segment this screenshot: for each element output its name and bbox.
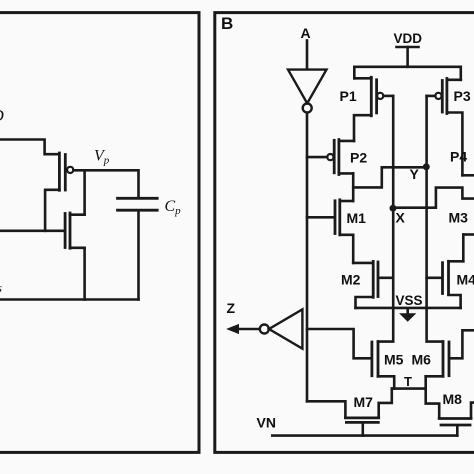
wire M7 source to T xyxy=(379,389,392,418)
transistor QP gate bubble xyxy=(67,167,73,173)
transistor M1 channel bar xyxy=(338,200,341,235)
wire Abar corner to M7 drain xyxy=(307,401,345,416)
wire Vdd feed to QP source xyxy=(0,140,58,155)
transistor M4 gate bar xyxy=(441,263,444,294)
transistor M7 gate bar xyxy=(346,421,378,424)
wire QN drain stub xyxy=(70,213,85,216)
svg-text:M8: M8 xyxy=(443,391,463,407)
wire P2 drain stub xyxy=(339,172,353,175)
inverter U1 bubble xyxy=(303,104,312,113)
transistor M5 channel bar xyxy=(377,342,380,377)
capacitor Cp bottom plate xyxy=(118,209,158,212)
svg-text:Y: Y xyxy=(410,166,420,182)
wire QN source stub xyxy=(70,247,85,250)
svg-text:P1: P1 xyxy=(340,88,357,104)
transistor M7 channel bar xyxy=(345,416,378,419)
wire QP drain down to gate line xyxy=(45,190,59,231)
svg-text:P2: P2 xyxy=(350,150,367,166)
panel A frame xyxy=(0,13,199,453)
inverter U2 bubble xyxy=(260,325,269,334)
transistor QP channel bar xyxy=(58,153,61,190)
wire VSS rail xyxy=(356,307,461,310)
wire P3 drain stub xyxy=(447,113,463,176)
transistor P1 gate bubble xyxy=(377,93,383,99)
wire QN source to bottom rail xyxy=(83,248,86,300)
wire M7 gate stem to VN rail xyxy=(361,424,364,436)
wire Abar to M5 gate xyxy=(307,329,371,358)
transistor QP gate bar xyxy=(64,155,67,191)
transistor M8 gate bar xyxy=(441,424,470,427)
wire drain line to Y riser xyxy=(353,167,382,187)
svg-text:VN: VN xyxy=(257,415,276,431)
wire M6 drain stub to VSS rail xyxy=(427,308,443,342)
transistor P2 channel bar xyxy=(337,140,340,175)
inverter U2 triangle xyxy=(269,309,302,348)
wire M5 source stub to T xyxy=(378,376,394,388)
svg-text:s: s xyxy=(0,280,2,295)
wire VDD underline xyxy=(397,46,419,49)
wire M4 gate to Y column xyxy=(427,276,442,279)
inverter U1 triangle xyxy=(288,70,327,104)
wire Vp drop to QN drain xyxy=(83,170,86,214)
wire P1 gate to X column xyxy=(384,95,394,98)
wire P2 source stub xyxy=(339,140,354,143)
svg-text:Vp: Vp xyxy=(94,148,110,167)
transistor P1 gate bar xyxy=(375,80,378,113)
node X junction dot xyxy=(390,205,397,212)
capacitor Cp top plate xyxy=(118,197,158,200)
svg-text:X: X xyxy=(396,210,406,226)
wire VN rail xyxy=(272,434,457,437)
wire input A xyxy=(306,41,309,70)
wire M1 drain stub xyxy=(340,200,353,203)
wire VDD top rail xyxy=(354,67,461,80)
wire P1 source stub xyxy=(354,77,371,80)
transistor QN gate bar xyxy=(64,214,67,248)
transistor P3 gate bar xyxy=(441,81,444,113)
transistor P3 gate bubble xyxy=(435,93,441,99)
transistor M2 channel bar xyxy=(372,261,375,297)
ground VSS symbol xyxy=(406,309,409,314)
node Vp wire from bubble to capacitor xyxy=(74,170,139,197)
wire node T line xyxy=(392,387,426,390)
transistor QN channel bar xyxy=(69,213,72,248)
svg-text:P4: P4 xyxy=(450,149,467,165)
wire M2 source stub to VSS rail xyxy=(356,297,374,308)
wire P4 source stub xyxy=(462,174,474,177)
wire node Y horizontal xyxy=(382,166,427,169)
wire node Y vertical column xyxy=(425,96,428,308)
wire bottom rail of panel A xyxy=(0,298,139,301)
wire M6 source stub xyxy=(426,375,443,378)
svg-text:B: B xyxy=(221,14,233,33)
svg-text:M4: M4 xyxy=(457,272,474,288)
transistor M6 gate bar xyxy=(448,342,451,376)
wire M8 source to right edge xyxy=(471,403,474,418)
svg-text:M3: M3 xyxy=(449,210,469,226)
svg-text:M1: M1 xyxy=(347,210,367,226)
svg-text:P3: P3 xyxy=(454,88,471,104)
wire Cp bottom to rail xyxy=(137,212,140,300)
wire M6 gate to right edge xyxy=(450,330,474,358)
wire M2 gate to X column xyxy=(379,276,393,279)
svg-text:T: T xyxy=(404,374,412,389)
wire P2 gate from Abar xyxy=(307,156,327,159)
transistor M8 channel bar xyxy=(439,417,471,420)
wire P3 source stub xyxy=(447,79,461,82)
wire P2/M1 drain junction vertical xyxy=(352,173,355,201)
transistor P1 channel bar xyxy=(370,77,373,116)
wire QN gate line from left edge xyxy=(0,230,64,233)
transistor M2 gate bar xyxy=(377,262,380,297)
wire output Z with arrowhead xyxy=(237,328,260,331)
wire M6 source down to M8 drain xyxy=(426,376,440,417)
panel B frame xyxy=(215,13,474,453)
transistor M5 gate bar xyxy=(370,342,373,376)
wire M3 source to M4 drain xyxy=(462,235,465,262)
transistor P3 channel bar xyxy=(445,79,448,114)
wire node X vertical column xyxy=(392,96,395,308)
wire P1 drain stub xyxy=(354,115,371,141)
transistor M6 channel bar xyxy=(442,342,445,377)
svg-text:M2: M2 xyxy=(341,272,361,288)
svg-text:VSS: VSS xyxy=(396,293,423,308)
svg-text:VDD: VDD xyxy=(394,31,423,46)
transistor P2 gate bar xyxy=(333,140,336,173)
svg-text:Z: Z xyxy=(227,300,236,316)
wire node X cross link to right side xyxy=(393,188,474,208)
transistor M1 gate bar xyxy=(334,201,337,234)
svg-text:M5: M5 xyxy=(384,352,404,368)
wire M4 drain stub xyxy=(449,260,464,263)
wire node Abar vertical xyxy=(306,113,309,402)
transistor M4 channel bar xyxy=(447,261,450,294)
wire M3 drain stub xyxy=(463,233,474,236)
wire M4 source stub to VSS rail xyxy=(449,295,461,308)
node Y junction dot xyxy=(423,163,430,170)
wire P3 gate to Y column xyxy=(427,95,436,98)
wire VDD stem xyxy=(406,47,409,67)
svg-text:A: A xyxy=(301,25,311,41)
transistor P2 gate bubble xyxy=(327,154,333,160)
wire M1 source stub xyxy=(340,235,353,263)
wire M5 drain stub to VSS rail xyxy=(378,308,393,342)
wire M8 gate stem to VN rail xyxy=(456,426,459,436)
svg-text:M6: M6 xyxy=(412,352,432,368)
svg-text:Cp: Cp xyxy=(165,198,182,217)
svg-text:M7: M7 xyxy=(354,394,374,410)
svg-text:D: D xyxy=(0,106,5,125)
wire M1 gate from Abar xyxy=(307,216,334,219)
wire M2 drain stub xyxy=(353,262,373,265)
